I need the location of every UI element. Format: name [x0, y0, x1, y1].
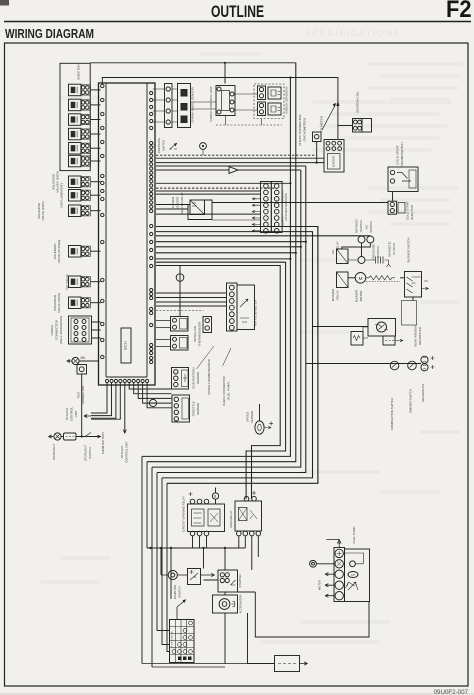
- wire: [90, 250, 100, 252]
- svg-text:OXYGEN: OXYGEN: [171, 197, 175, 209]
- svg-text:OXYGEN SENSORS: OXYGEN SENSORS: [284, 193, 288, 220]
- svg-text:STOPLIGHT: STOPLIGHT: [84, 445, 88, 462]
- svg-text:CRANK ANGEL SENSOR: CRANK ANGEL SENSOR: [191, 86, 195, 123]
- svg-text:PRESSURE: PRESSURE: [157, 138, 161, 154]
- ECU main control unit body: [99, 83, 156, 385]
- test connector: [77, 365, 87, 375]
- injector 6: [69, 155, 81, 167]
- wire stubs to intake air thermosensors: [156, 321, 171, 347]
- ECU inner body lines: [106, 83, 147, 377]
- wire arrows out of blower switch: [422, 281, 429, 290]
- solenoid valve VALVES (EGR): [69, 176, 81, 188]
- svg-text:METER: METER: [318, 580, 322, 590]
- svg-text:HEATER RELAY: HEATER RELAY: [180, 192, 184, 214]
- wire: [90, 281, 100, 283]
- svg-text:THROTTLE: THROTTLE: [192, 401, 196, 416]
- wire bottom rail: [147, 547, 245, 549]
- wire: [348, 277, 355, 279]
- alternator: [213, 595, 238, 613]
- injector 1: [69, 84, 81, 96]
- wire drops: [161, 548, 225, 599]
- svg-text:INTAKE AIR: INTAKE AIR: [193, 326, 197, 342]
- oxygen sensor relay: [190, 200, 205, 215]
- solenoid valve (VACUUM/VENT): [69, 190, 81, 202]
- dimmer switch: [408, 361, 417, 370]
- throttle sensor: [172, 395, 190, 422]
- svg-text:FP: FP: [351, 573, 355, 577]
- svg-text:FUEL PUMP: FUEL PUMP: [352, 526, 356, 543]
- svg-text:SENSOR: SENSOR: [250, 411, 254, 423]
- wire + marks: [431, 356, 435, 369]
- svg-text:CHECK CONNECTOR: CHECK CONNECTOR: [222, 376, 226, 406]
- svg-text:MAGNETIC: MAGNETIC: [388, 241, 392, 256]
- svg-text:VALVE (PURGE): VALVE (PURGE): [57, 240, 61, 263]
- wire: [79, 360, 98, 362]
- wire bus group E to air flow meter: [156, 293, 227, 306]
- svg-text:RELAY: RELAY: [336, 241, 340, 250]
- svg-text:RELAY: RELAY: [336, 290, 340, 299]
- rear window defroster unit: [368, 319, 396, 337]
- svg-text:OUTLINE: OUTLINE: [211, 3, 264, 21]
- svg-text:DEFROST: DEFROST: [355, 219, 359, 233]
- scan artifact corner: [0, 0, 9, 6]
- svg-text:COLD START: COLD START: [396, 145, 400, 164]
- svg-text:VALVE (VRIS): VALVE (VRIS): [57, 293, 61, 313]
- svg-text:SWITCH: SWITCH: [359, 220, 363, 231]
- leader lines: [197, 346, 232, 369]
- svg-text:CHECK: CHECK: [50, 324, 54, 336]
- svg-text:COLD START: COLD START: [406, 201, 410, 220]
- wire to E/CAT 2 down: [124, 383, 126, 433]
- dashed wire: [216, 124, 282, 126]
- flow arrow up: [336, 101, 339, 106]
- MIL lamp: [72, 357, 79, 364]
- svg-text:TEST: TEST: [77, 391, 81, 399]
- svg-text:STARTER: STARTER: [238, 574, 242, 587]
- air flow meter connector strip: [227, 283, 238, 331]
- meter arrows: [325, 573, 334, 576]
- svg-text:09U0F2-007: 09U0F2-007: [434, 689, 469, 695]
- fuel pump connector strip: [334, 548, 345, 602]
- svg-text:SENSOR: SENSOR: [196, 372, 200, 384]
- stoplight: [54, 433, 61, 440]
- small box: [383, 336, 395, 345]
- svg-text:ST IG2 IG1 ACC B: ST IG2 IG1 ACC B: [171, 631, 174, 648]
- svg-text:(SELF-DIAGNOSIS): (SELF-DIAGNOSIS): [59, 316, 63, 344]
- svg-text:CIRCUIT OPENING RELAY: CIRCUIT OPENING RELAY: [182, 496, 186, 532]
- circuit opening relay: [188, 504, 225, 532]
- svg-text:TO E/CAT: TO E/CAT: [120, 445, 124, 458]
- intake air thermosensor unit 2: [171, 336, 189, 351]
- wire starter connections: [204, 580, 370, 664]
- knock sensor 2: [258, 102, 266, 116]
- svg-text:INJECTOR: INJECTOR: [77, 64, 81, 80]
- wire relay loop: [188, 200, 212, 220]
- svg-text:A/C: A/C: [331, 250, 335, 255]
- ignition switch block: [170, 620, 195, 663]
- svg-text:SWITCH: SWITCH: [88, 447, 92, 458]
- arrow to E/CAT: [84, 414, 91, 417]
- wire: [90, 302, 100, 304]
- ECU left pin column: [101, 84, 104, 358]
- inhibitor switch: [177, 600, 186, 621]
- svg-text:INJECTOR: INJECTOR: [410, 204, 414, 220]
- svg-text:SWITCH: SWITCH: [369, 221, 373, 232]
- sensor circle on wire: [179, 266, 181, 317]
- a/c relay: [337, 249, 349, 264]
- wire bus group B: [156, 182, 290, 184]
- wire: [90, 133, 100, 135]
- blower switch: [405, 272, 422, 298]
- main relay: [235, 501, 262, 531]
- svg-text:DIMMER SWITCH: DIMMER SWITCH: [409, 389, 413, 413]
- wire w arrow: [363, 327, 403, 342]
- svg-text:ALTERNATOR: ALTERNATOR: [239, 595, 243, 614]
- wire combination feed: [306, 363, 421, 365]
- svg-text:MIL: MIL: [81, 356, 87, 360]
- magnetic clutch: [348, 259, 376, 261]
- svg-text:BLOWER: BLOWER: [355, 290, 359, 303]
- igniter: [324, 140, 344, 173]
- wire into fusible link: [248, 663, 275, 665]
- svg-text:THERMOSWITCH: THERMOSWITCH: [400, 142, 404, 168]
- wire arrow right: [201, 573, 215, 576]
- wire KCU to knock sensors: [235, 94, 258, 110]
- svg-text:SWITCH: SWITCH: [162, 140, 166, 151]
- knock sensor 1: [258, 86, 266, 100]
- ECU label box: [121, 328, 131, 363]
- resistor box: [351, 332, 363, 346]
- wire main relay down: [239, 536, 258, 570]
- wire bus group A: [156, 154, 317, 156]
- wire bus group C: [156, 204, 190, 206]
- svg-text:SPECIFICATIONS: SPECIFICATIONS: [305, 28, 401, 38]
- ground: [49, 435, 54, 438]
- svg-text:CONTROL UNIT: CONTROL UNIT: [125, 441, 129, 463]
- crank angle sensor connector strip: [165, 84, 173, 128]
- injector 4: [69, 128, 81, 140]
- svg-text:UNIT: UNIT: [74, 410, 78, 417]
- ground: [67, 360, 72, 363]
- knock control unit: [216, 86, 235, 116]
- svg-text:(FUEL PUMP): (FUEL PUMP): [227, 382, 231, 400]
- ghost bleedthrough patches: [40, 52, 463, 644]
- fuse: [64, 433, 77, 440]
- svg-text:CHECK CONNECTOR: CHECK CONNECTOR: [298, 113, 302, 145]
- svg-text:F2: F2: [446, 0, 472, 23]
- svg-text:B: B: [194, 575, 196, 579]
- blower resistor: [366, 276, 395, 280]
- scan artifact bottom band: [0, 693, 474, 695]
- svg-text:SENSOR: SENSOR: [196, 403, 200, 415]
- svg-text:BLOWER SWITCH: BLOWER SWITCH: [407, 238, 411, 263]
- wire: [316, 142, 318, 163]
- svg-text:COMBINATION SWITCH: COMBINATION SWITCH: [390, 398, 394, 430]
- svg-text:(VACUUM/VENT): (VACUUM/VENT): [60, 183, 64, 207]
- svg-text:M: M: [359, 276, 363, 281]
- wire rear window feed: [313, 326, 369, 328]
- svg-text:(TACHOMETER): (TACHOMETER): [303, 118, 307, 142]
- ECU bottom pin row: [105, 379, 148, 382]
- wire arrow: [264, 421, 273, 429]
- wire bottom rails: [142, 664, 275, 668]
- wire: [90, 119, 100, 121]
- wire: [90, 194, 100, 196]
- combination switch: [390, 361, 399, 370]
- wire alternator drop: [224, 613, 226, 664]
- wire: [412, 297, 414, 301]
- box outline right: [402, 301, 417, 326]
- header rule: [4, 21, 471, 23]
- solenoid valve VALVE (PURGE): [69, 246, 81, 258]
- wire coil to vertical: [338, 125, 353, 127]
- svg-text:THERMOSENSOR: THERMOSENSOR: [198, 322, 202, 347]
- wire: [91, 383, 120, 419]
- solenoid valve ISC VALVE: [69, 276, 81, 288]
- speed sensor: [255, 421, 264, 434]
- wire: [90, 210, 100, 212]
- blower relay: [337, 272, 349, 288]
- wire: [90, 160, 100, 162]
- meter feed ring: [310, 560, 317, 567]
- wire relay feeds down: [193, 488, 216, 549]
- injector 5: [69, 143, 81, 155]
- wire CAS to KCU: [191, 102, 217, 109]
- wire staircase to sensors: [129, 383, 171, 389]
- svg-text:SENSOR: SENSOR: [176, 197, 180, 209]
- svg-text:EGR POSITION: EGR POSITION: [192, 368, 196, 389]
- starter: [218, 570, 238, 592]
- fuel pump body: [345, 549, 370, 602]
- defrost switch: [358, 236, 365, 243]
- wire: [92, 322, 101, 338]
- wire long verticals through middle: [142, 78, 290, 457]
- arrow on bus: [229, 167, 238, 174]
- stoplight switch: [85, 433, 91, 437]
- intake air thermosensor unit 1: [171, 317, 189, 332]
- wire thermoswitch to injector: [392, 192, 394, 202]
- check connector (tachometer): [313, 132, 322, 142]
- svg-text:DEFROSTER: DEFROSTER: [418, 327, 422, 345]
- ignition coil: [353, 119, 363, 133]
- wire: [90, 89, 100, 91]
- cold start thermoswitch: [388, 167, 418, 192]
- svg-text:BLOWER: BLOWER: [331, 289, 335, 302]
- svg-text:PRESSURE: PRESSURE: [372, 244, 376, 260]
- from battery arrow: [97, 435, 100, 438]
- svg-text:CONNECTOR: CONNECTOR: [55, 319, 59, 340]
- svg-text:MAIN RELAY: MAIN RELAY: [229, 510, 233, 527]
- wire bus group D: [156, 227, 318, 484]
- connector 2way: [203, 317, 212, 333]
- svg-text:VALVE (PRC): VALVE (PRC): [41, 202, 45, 221]
- wire group to E/CAT: [91, 383, 107, 413]
- svg-text:REAR WINDOW: REAR WINDOW: [414, 325, 418, 347]
- solenoid valve VALVE (VRIS): [69, 297, 81, 309]
- svg-text:WIRING DIAGRAM: WIRING DIAGRAM: [5, 27, 94, 41]
- dashed enclosure knock sensors: [254, 84, 284, 119]
- svg-text:KNOCK CONTROL UNIT: KNOCK CONTROL UNIT: [209, 86, 213, 121]
- svg-text:IGNITER: IGNITER: [332, 156, 336, 167]
- cold start injector: [388, 201, 397, 214]
- sensor circle: [200, 143, 207, 150]
- wire: [90, 147, 100, 149]
- junction circle: [149, 399, 156, 406]
- svg-text:ECU: ECU: [122, 341, 127, 350]
- fusible link: [275, 656, 300, 672]
- svg-text:AIR FLOW METER: AIR FLOW METER: [254, 299, 258, 326]
- blower motor: [355, 273, 366, 284]
- svg-text:MOTOR: MOTOR: [359, 291, 363, 302]
- svg-text:IGNITION COIL: IGNITION COIL: [356, 91, 360, 113]
- EGR position sensor: [172, 368, 189, 390]
- wire: [90, 104, 100, 106]
- crank angle sensor CAS: [178, 84, 191, 128]
- svg-text:SWITCH: SWITCH: [376, 246, 380, 257]
- svg-text:INHIBITOR: INHIBITOR: [173, 585, 177, 600]
- svg-text:CLUTCH: CLUTCH: [392, 243, 396, 255]
- svg-text:WATER THERMOSENSOR: WATER THERMOSENSOR: [207, 359, 211, 395]
- check connector (self-diagnosis): [69, 316, 92, 344]
- solenoid valve VALVE (PRC): [69, 205, 81, 217]
- ignition key switch: [168, 570, 177, 579]
- wire ECU top rail 2: [102, 78, 338, 140]
- svg-text:TO METER: TO METER: [320, 115, 324, 132]
- wire: [342, 236, 371, 257]
- air flow meter body: [237, 285, 255, 330]
- headlights: [421, 356, 428, 363]
- pressure switch: [358, 257, 365, 264]
- injector 3: [69, 114, 81, 126]
- injector bracket box: [60, 63, 90, 170]
- svg-text:HEADLIGHTS: HEADLIGHTS: [421, 384, 425, 403]
- injector 2: [69, 99, 81, 111]
- oxygen sensors connector: [261, 182, 272, 233]
- wire nest verticals descend: [142, 456, 170, 667]
- wire stubs ECU to CAS: [153, 89, 178, 122]
- svg-text:TO E/CAT: TO E/CAT: [65, 407, 69, 420]
- svg-text:ISC VALVE: ISC VALVE: [65, 274, 69, 290]
- wire test connector down: [81, 374, 83, 437]
- svg-text:P/S: P/S: [153, 143, 157, 148]
- wire fuel pump top ground: [327, 540, 341, 548]
- ECU right pin column: [150, 91, 153, 363]
- a/c switch: [367, 236, 374, 243]
- svg-text:A/C: A/C: [365, 225, 369, 230]
- wire: [61, 436, 101, 438]
- svg-text:FROM BATTERY: FROM BATTERY: [101, 432, 105, 454]
- svg-text:STOPLIGHT: STOPLIGHT: [52, 444, 56, 461]
- svg-text:KNOCK SENSORS: KNOCK SENSORS: [285, 87, 289, 114]
- wire: [90, 181, 100, 183]
- svg-text:CONTROL: CONTROL: [70, 407, 74, 422]
- svg-text:SWITCH: SWITCH: [178, 586, 182, 597]
- B+ box: [188, 569, 201, 585]
- wire top rail to knock control unit and down: [90, 62, 296, 64]
- wire stubs with arrows: [252, 198, 261, 200]
